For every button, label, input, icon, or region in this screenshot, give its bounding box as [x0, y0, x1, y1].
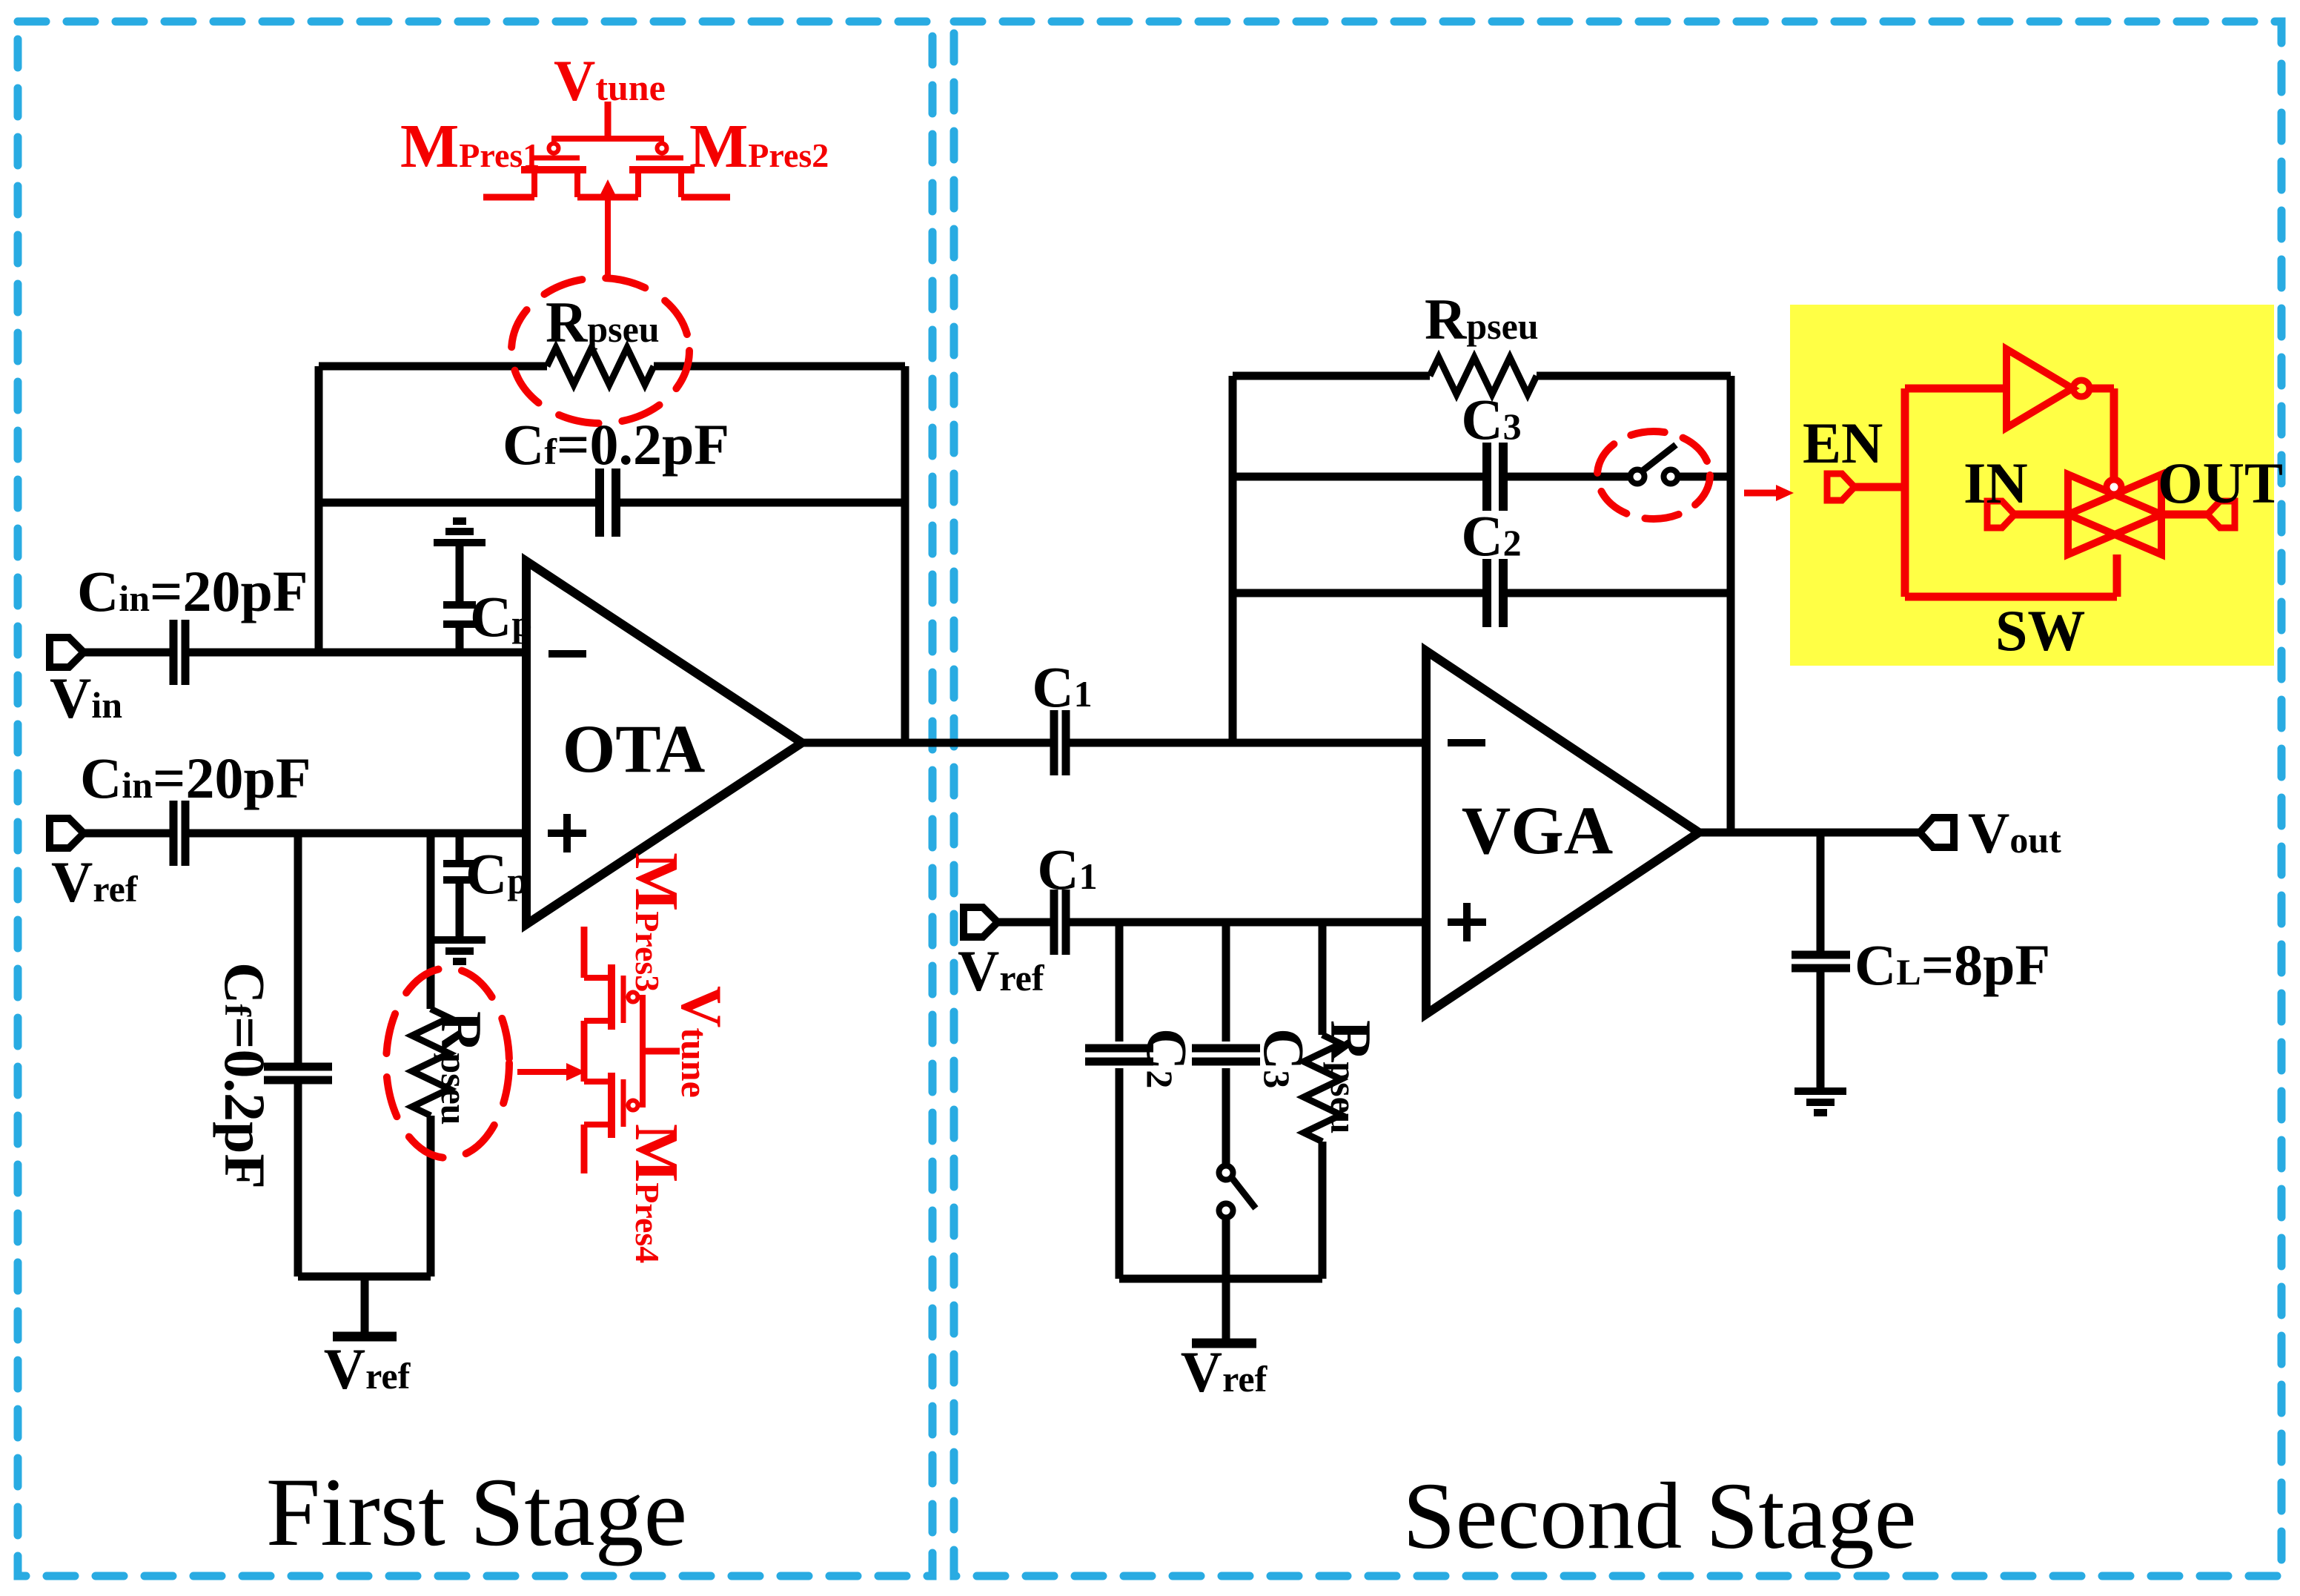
svg-text:Cf=0.2pF: Cf=0.2pF [213, 962, 277, 1189]
wire VGA output to Vout [1699, 829, 1920, 837]
SW panel: wire OUT [2161, 511, 2207, 519]
capacitor Cf2 (vertical) [264, 1067, 332, 1080]
wire stage2 feedback top (Rpseu branch) [1233, 372, 1731, 380]
svg-text:EN: EN [1803, 411, 1883, 475]
SW panel: terminal IN [1987, 501, 2015, 528]
red arrow to transistor pair 2 [517, 1063, 586, 1081]
wire Rpseu2 branch [427, 833, 435, 1277]
SW panel: inverter bubble [2073, 380, 2089, 397]
svg-text:IN: IN [1963, 451, 2028, 515]
svg-text:OUT: OUT [2158, 451, 2283, 515]
wire feedback mid (Cf branch) [319, 499, 905, 507]
switch SW1 on C3 branch [1631, 445, 1678, 484]
SW detail yellow panel [1790, 305, 2274, 666]
svg-text:OTA: OTA [563, 711, 706, 787]
resistor R1 Rpseu [547, 348, 654, 385]
OTA plus sign [548, 814, 586, 852]
SW panel: trunk vertical [1901, 388, 1909, 597]
wire stage2 C3-switch branch [1233, 473, 1731, 481]
SW panel: terminal EN [1827, 474, 1855, 500]
SW panel: transmission gate bubble [2107, 480, 2121, 494]
resistor R4 Rpseu vertical stage2 [1304, 1035, 1341, 1142]
svg-text:Second Stage: Second Stage [1402, 1463, 1916, 1569]
resistor R2 Rpseu vertical [412, 1009, 449, 1116]
wire R4 branch [1319, 922, 1327, 1279]
ground below Cp2 [434, 940, 485, 961]
wire Vin to OTA minus input [84, 649, 526, 657]
dashed border box Second Stage [954, 21, 2281, 1576]
Vref supply bar stage1 [333, 1332, 397, 1342]
Vref supply bar stage2 [1192, 1339, 1256, 1348]
svg-text:VGA: VGA [1462, 792, 1613, 868]
terminal Vref2 [964, 907, 998, 937]
SW panel: inverter U2 [2006, 349, 2072, 428]
resistor R3 Rpseu stage2 [1430, 357, 1537, 394]
transistor pair MPres3/MPres4 (rotated) [584, 927, 680, 1173]
terminal Vin [50, 638, 84, 667]
wire Vref to OTA plus input [84, 830, 526, 838]
svg-text:SW: SW [1995, 598, 2085, 663]
wire CL branch [1817, 832, 1825, 1091]
wire stage2 feedback right edge [1727, 376, 1735, 832]
capacitor C2v (vertical) [1085, 1048, 1153, 1062]
svg-text:Cf=0.2pF: Cf=0.2pF [503, 412, 729, 477]
capacitor C2 [1487, 559, 1503, 627]
wire Cp2 stub [456, 833, 464, 940]
capacitor Cin2 [173, 801, 185, 866]
SW panel: wire IN [2015, 511, 2068, 519]
wire feedback top (Rpseu branch) [319, 362, 905, 371]
transistor pair MPres1/MPres2 [483, 102, 730, 197]
ground below CL [1794, 1091, 1846, 1113]
SW panel: terminal OUT [2207, 501, 2235, 528]
wire stage2 feedback left edge [1229, 376, 1237, 743]
wire OTA output to VGA minus input [802, 739, 1426, 747]
op-amp VGA [1426, 651, 1699, 1014]
capacitor Cf1 [600, 468, 616, 537]
wire C2v branch [1116, 922, 1124, 1279]
SW panel: wire inverter to gate [2089, 388, 2114, 479]
wire Cp1 stub [456, 543, 464, 652]
svg-text:First Stage: First Stage [266, 1457, 687, 1566]
red dashed ellipse around SW1 [1597, 431, 1710, 519]
VGA plus sign [1448, 903, 1486, 941]
SW panel: transmission gate U3 [2068, 474, 2161, 554]
red dashed ellipse around R1 [511, 278, 689, 423]
red arrow from SW1 to SW panel [1744, 485, 1794, 501]
wire C3v-switch branch [1222, 922, 1230, 1279]
SW panel: wire EN to trunk [1855, 483, 1905, 491]
capacitor C3 [1487, 443, 1503, 511]
svg-text:Cin=20pF: Cin=20pF [77, 559, 308, 623]
red arrow to transistor pair 1 [599, 179, 617, 277]
capacitor C1a [1054, 710, 1066, 775]
ground above Cp1 (flipped) [434, 521, 485, 543]
VGA minus sign [1448, 739, 1485, 746]
capacitor C1b [1054, 890, 1066, 955]
switch SW2 on C3v branch [1219, 1166, 1256, 1218]
wire feedback right edge [901, 366, 909, 743]
SW panel: wire trunk to inverter [1905, 385, 2006, 393]
wire Cf2 branch [294, 833, 302, 1277]
capacitor Cin1 [173, 620, 185, 685]
OTA minus sign [549, 650, 586, 658]
terminal Vout [1920, 818, 1954, 847]
terminal Vref1 [50, 818, 84, 848]
wire Vref2 to VGA plus input [998, 918, 1426, 927]
capacitor Cp1 plates [443, 605, 476, 624]
svg-text:CL=8pF: CL=8pF [1855, 933, 2050, 997]
wire bottom join stage1 [298, 1273, 431, 1281]
dashed border box First Stage [18, 21, 932, 1576]
capacitor C3v (vertical) [1192, 1048, 1260, 1062]
wire Vref supply drop stage1 [361, 1277, 369, 1337]
SW panel: bottom branch [1905, 554, 2117, 597]
wire feedback left edge [315, 366, 323, 652]
capacitor Cp2 plates [443, 864, 476, 880]
capacitor CL [1792, 955, 1850, 968]
red dashed ellipse around R2 [386, 968, 509, 1158]
svg-text:Cin=20pF: Cin=20pF [80, 746, 311, 810]
op-amp OTA [526, 561, 802, 924]
wire stage2 C2 branch [1233, 589, 1731, 597]
wire Vref supply drop stage2 [1222, 1279, 1230, 1343]
wire bottom join stage2 [1119, 1275, 1322, 1283]
